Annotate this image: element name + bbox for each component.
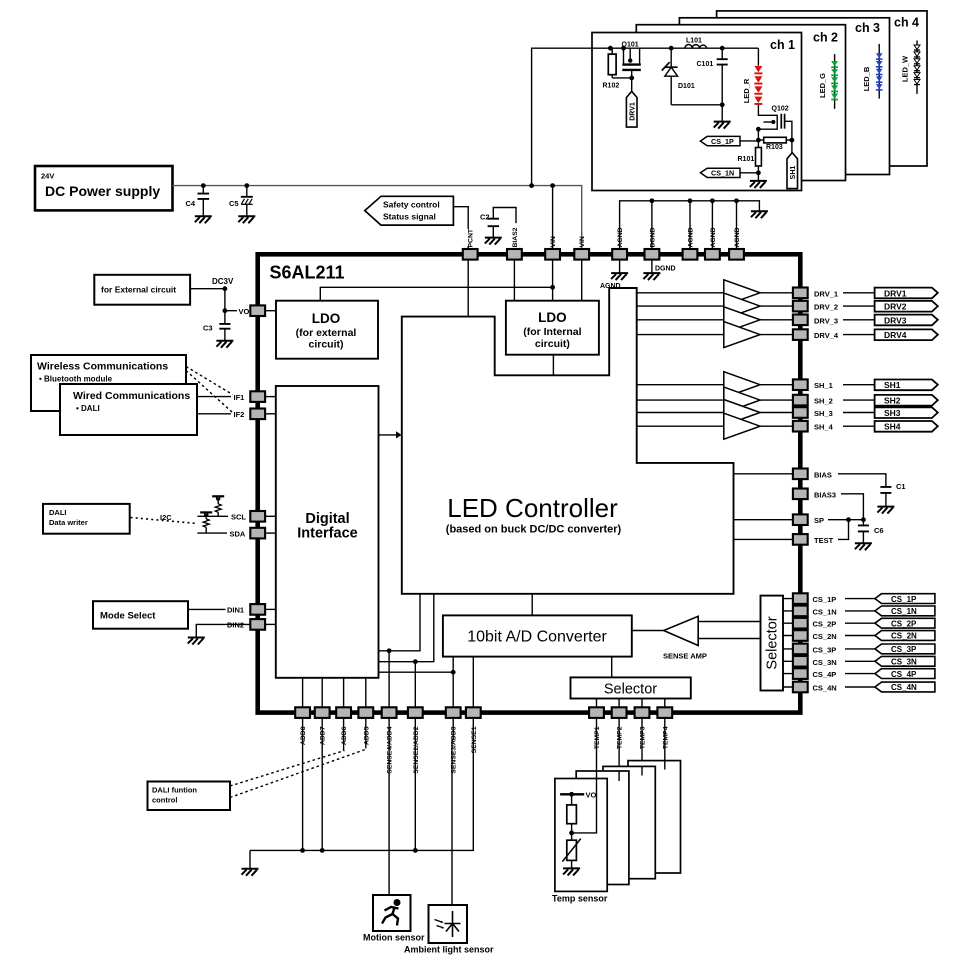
pin AGND 2 [683, 249, 698, 260]
ground C6 [855, 543, 872, 550]
svg-text:DRV4: DRV4 [884, 330, 907, 340]
box DALI funtion control [148, 782, 231, 811]
tag DRV2 [875, 301, 938, 312]
svg-text:TEMP3: TEMP3 [640, 726, 647, 749]
svg-text:DIN1: DIN1 [227, 606, 244, 615]
resistor R102 [608, 48, 616, 78]
svg-text:DC3V: DC3V [212, 277, 234, 286]
LED string LED_G [831, 61, 838, 100]
svg-text:DRV_1: DRV_1 [814, 289, 838, 298]
wire SENSE4 to motion sensor [388, 718, 390, 895]
tag SH1 output [875, 380, 938, 391]
pin SH_2 [793, 395, 808, 406]
junction rail to VIN1 [550, 183, 555, 188]
wire sense2 pin riser [414, 662, 416, 707]
junction ADD7 ground [320, 848, 325, 853]
wire CS_3N pin to tag [845, 660, 875, 662]
junction at C101 bottom [720, 102, 725, 107]
wire ADD6 stub [343, 718, 345, 751]
10bit A/D Converter box [443, 615, 632, 656]
svg-text:(for Internal: (for Internal [523, 326, 581, 338]
ground thermistor [563, 868, 580, 875]
box Ambient light sensor [429, 905, 468, 943]
wire DC3V to VO pin [225, 289, 237, 324]
wire DI to sense3 row [379, 671, 454, 673]
ground DGND pin [643, 260, 660, 281]
pin AGND 4 [729, 249, 744, 260]
pin BIAS3 [793, 489, 808, 500]
wire TEMP2 down [618, 718, 620, 781]
wire TEST to LED controller [734, 538, 794, 540]
junction C5 [244, 183, 249, 188]
wire SENSE2 down [414, 718, 416, 850]
wire SP to LED controller [734, 519, 794, 521]
pin SH_4 [793, 421, 808, 432]
svg-text:Selector: Selector [604, 682, 657, 698]
svg-text:circuit): circuit) [535, 338, 570, 350]
svg-text:DRV1: DRV1 [884, 288, 907, 298]
wire SCL [197, 515, 228, 517]
LED string LED_W [914, 45, 920, 85]
svg-text:VIN: VIN [550, 236, 557, 247]
pin TEMP4 [657, 707, 672, 718]
wire ADC to sense3 pin [452, 657, 454, 707]
svg-text:DIN2: DIN2 [227, 621, 244, 630]
junction at C101 top [720, 46, 725, 51]
tag SH3 [875, 407, 938, 418]
junction R103 right [790, 138, 795, 143]
wire DRV_1 to tag [843, 292, 875, 294]
svg-text:CS_4P: CS_4P [891, 670, 917, 679]
svg-text:Wired Communications: Wired Communications [73, 390, 190, 402]
wire PCNT into LED controller [467, 260, 469, 317]
svg-text:LDO: LDO [538, 310, 567, 325]
svg-text:IF1: IF1 [234, 393, 245, 402]
pin BIAS2 [507, 249, 522, 260]
tag SH4 [875, 421, 938, 432]
junction R101 top [756, 138, 761, 143]
pin DGND [645, 249, 660, 260]
junction sense2 [413, 659, 418, 664]
wire ground bus drop [249, 850, 251, 868]
svg-text:Status signal: Status signal [383, 212, 436, 222]
svg-text:CS_2P: CS_2P [891, 619, 917, 628]
svg-text:C6: C6 [874, 526, 884, 535]
svg-text:TEMP1: TEMP1 [594, 726, 601, 749]
svg-text:ch 4: ch 4 [894, 16, 919, 30]
svg-text:Temp sensor: Temp sensor [552, 894, 608, 904]
svg-text:Safety control: Safety control [383, 200, 440, 210]
transistor Q101 [622, 48, 641, 78]
pin CS_4N [793, 682, 808, 693]
junction SENSE2 ground [413, 848, 418, 853]
capacitor C5 (polarized) [241, 186, 253, 217]
tag DRV1 [875, 288, 938, 299]
svg-text:SH_4: SH_4 [814, 423, 834, 432]
ground ch1 LC [714, 122, 731, 129]
resistor temp divider [567, 794, 577, 840]
chip S6AL211 border [258, 254, 801, 712]
wire ADC to temp selector [611, 657, 613, 678]
wire TEST up to SP node [838, 520, 849, 540]
junction at Q101 source [621, 46, 626, 51]
svg-text:DGND: DGND [655, 266, 676, 273]
ground bottom bus [242, 869, 259, 876]
pullup resistor SDA [200, 512, 212, 533]
svg-text:L101: L101 [686, 38, 702, 45]
pin DRV_3 [793, 315, 808, 326]
thermistor [562, 839, 580, 869]
pin PCNT [463, 249, 478, 260]
svg-text:VIN: VIN [579, 236, 586, 247]
pin TEMP1 [589, 707, 604, 718]
wire CS_1N pin to tag [845, 610, 875, 612]
svg-text:D101: D101 [678, 83, 695, 90]
wires selector to CS pins [783, 599, 793, 687]
tag CS_1N external [875, 606, 935, 616]
pin CS_4P [793, 668, 808, 679]
svg-text:VO: VO [239, 307, 250, 316]
pin AGND 1 [612, 249, 627, 260]
svg-text:SH_3: SH_3 [814, 409, 833, 418]
ground AGND bus [751, 211, 768, 218]
svg-text:C5: C5 [229, 199, 239, 208]
svg-text:ADD5: ADD5 [363, 726, 370, 745]
temp sensor box 2 [576, 771, 629, 885]
wire TEMP4 down [664, 718, 666, 770]
tag DRV3 [875, 315, 938, 326]
inductor L101 [685, 45, 707, 49]
DC power supply box [35, 166, 173, 210]
svg-text:BIAS: BIAS [814, 470, 832, 479]
temp sensor box 3 [603, 766, 655, 878]
svg-text:Data writer: Data writer [49, 518, 88, 527]
svg-text:SH3: SH3 [884, 408, 901, 418]
svg-text:ch 1: ch 1 [770, 38, 795, 52]
pin SH_3 [793, 407, 808, 418]
wire ch4 LED string [916, 41, 918, 94]
wire ch2 LED string [834, 54, 836, 109]
pin ADD5 [358, 707, 373, 718]
svg-text:SENSE4/ADD4: SENSE4/ADD4 [387, 726, 394, 773]
LDO for internal circuit box [506, 301, 599, 355]
wire SCL pin to DI [265, 515, 276, 517]
junction R101 bottom [756, 170, 761, 175]
svg-text:LDO: LDO [312, 311, 341, 326]
wire gate to DRV1 tag [631, 78, 633, 91]
capacitor C1 [880, 487, 891, 507]
wire DRV_3 to tag [843, 319, 875, 321]
pin VIN 1 [545, 249, 560, 260]
junction temp divider [569, 831, 574, 836]
svg-text:SH_2: SH_2 [814, 397, 833, 406]
svg-text:CS_4N: CS_4N [891, 683, 917, 692]
wire DIN2 to ground [196, 624, 250, 637]
svg-text:24V: 24V [41, 172, 54, 181]
wire PCNT label stub [467, 246, 469, 249]
wire TEMP1 down [596, 718, 598, 771]
wire wired to IF1 [197, 396, 231, 398]
svg-text:LED_R: LED_R [742, 78, 751, 103]
pin CS_2N [793, 630, 808, 641]
wire TEMP2 stub inside box [618, 771, 620, 781]
svg-text:S6AL211: S6AL211 [270, 263, 345, 283]
pin SENSE2/ADD2 [408, 707, 423, 718]
wire D101 bottom to C101 bottom [671, 104, 722, 106]
junction Q101 gate node [629, 76, 634, 81]
wire mode select to DIN1 [188, 608, 226, 610]
wire ADD7 down [321, 718, 323, 850]
wire R102 to Q101 gate [612, 77, 632, 79]
junction Q102 source node [756, 127, 761, 132]
pin CS_2P [793, 618, 808, 629]
wire SDA [197, 532, 227, 534]
pin TEMP3 [635, 707, 650, 718]
svg-text:ch 2: ch 2 [813, 31, 838, 45]
wire CS_1N to R101 bottom [740, 172, 758, 174]
svg-text:CS_3P: CS_3P [813, 645, 837, 654]
pin VIN 2 [574, 249, 589, 260]
svg-text:10bit A/D Converter: 10bit A/D Converter [467, 629, 607, 646]
diode D101 (schottky) [662, 48, 678, 105]
pin CS_1P [793, 593, 808, 604]
tag CS_1P external [875, 594, 935, 604]
pin DRV_2 [793, 301, 808, 312]
pin SENSE3/ADD3 [446, 707, 461, 718]
svg-text:CS_1P: CS_1P [891, 595, 917, 604]
svg-text:(based on buck DC/DC converter: (based on buck DC/DC converter) [446, 524, 622, 536]
svg-text:circuit): circuit) [308, 339, 343, 351]
box Wireless Communications [31, 355, 186, 411]
svg-text:LED Controller: LED Controller [447, 493, 618, 523]
svg-text:CS_3N: CS_3N [813, 658, 837, 667]
svg-text:Wireless Communications: Wireless Communications [37, 361, 168, 373]
amp SENSE AMP [632, 616, 761, 645]
svg-text:SP: SP [814, 516, 824, 525]
wire TEMP4 stub inside box [664, 761, 666, 770]
junction sense4 [387, 648, 392, 653]
pin SDA [250, 528, 265, 539]
resistor R101 [756, 148, 762, 173]
svg-text:CS_3N: CS_3N [891, 658, 917, 667]
junction VO [223, 308, 228, 313]
wire CS_1P pin to tag [845, 598, 875, 600]
svg-text:ADD6: ADD6 [341, 726, 348, 745]
channel box ch1 [592, 33, 802, 191]
junction AGND riser 4 [734, 198, 739, 203]
buffer SH triangles [637, 372, 793, 440]
pin ADD7 [315, 707, 330, 718]
tag CS_1P [700, 136, 740, 146]
tag SH2 [875, 395, 938, 406]
svg-text:ch 3: ch 3 [855, 21, 880, 35]
svg-text:LED_G: LED_G [818, 73, 827, 98]
wire L101 out to LED_R [757, 48, 759, 66]
svg-text:DRV1: DRV1 [629, 102, 636, 121]
capacitor C6 [858, 520, 869, 544]
svg-text:CS_3P: CS_3P [891, 645, 917, 654]
tag CS_3N external [875, 656, 935, 666]
wire IF1 pin to DI [265, 396, 276, 398]
wire BIAS to C1 [838, 474, 886, 487]
junction SP/TEST [846, 517, 851, 522]
svg-text:Interface: Interface [297, 526, 357, 542]
buffer DRV triangles [637, 280, 793, 348]
wire ch3 LED string [878, 44, 880, 99]
svg-text:VO: VO [586, 791, 597, 800]
junction ADD8 ground [300, 848, 305, 853]
Digital Interface box [276, 386, 379, 678]
svg-text:LED_W: LED_W [901, 55, 910, 82]
capacitor C101 [717, 48, 728, 105]
svg-text:DALI funtion: DALI funtion [152, 786, 197, 795]
dotted I2C line [131, 518, 198, 524]
wire DIN1 pin to DI [265, 608, 276, 610]
pin AGND 3 [705, 249, 720, 260]
pin DIN1 [250, 604, 265, 615]
junction AGND riser 2 [688, 198, 693, 203]
junction AGND riser 3 [710, 198, 715, 203]
pin BIAS [793, 469, 808, 480]
ground AGND pin [611, 260, 628, 281]
wire LED ctrl to sense4 row [379, 594, 421, 651]
svg-text:AGND: AGND [617, 227, 624, 247]
LED Controller box [402, 288, 734, 594]
pullup resistor SCL [212, 496, 224, 516]
dashed wireless to IF1 [186, 367, 233, 395]
junction DGND riser [650, 198, 655, 203]
pin IF1 [250, 391, 265, 402]
tag CS_4P external [875, 669, 935, 679]
wire wired to IF2 [197, 413, 231, 415]
junction SP/C6 [861, 517, 866, 522]
svg-text:CS_1N: CS_1N [711, 169, 734, 178]
svg-text:DRV2: DRV2 [884, 302, 907, 312]
wire ADD5 stub [365, 718, 367, 748]
svg-text:SDA: SDA [230, 529, 246, 538]
wire SDA pin to DI [265, 532, 276, 534]
svg-text:CS_2P: CS_2P [813, 620, 837, 629]
tag DRV1 [626, 91, 637, 127]
wire LED controller to ADC [531, 594, 533, 616]
svg-text:I2C: I2C [160, 513, 172, 522]
wire SH_3 to tag [843, 412, 875, 414]
wire BIAS3 down to SP node [841, 494, 863, 520]
svg-text:DRV3: DRV3 [884, 315, 907, 325]
pin CS_3P [793, 644, 808, 655]
svg-text:CS_1N: CS_1N [891, 607, 917, 616]
svg-text:SENSE2/ADD2: SENSE2/ADD2 [413, 726, 420, 773]
svg-text:control: control [152, 796, 177, 805]
wire bottom ground bus [250, 718, 473, 850]
svg-text:Q101: Q101 [622, 42, 639, 49]
selector (CS) box [761, 596, 784, 691]
junction C4 [201, 183, 206, 188]
channel box ch2 [636, 25, 845, 181]
wire SH_2 to tag [843, 399, 875, 401]
svg-text:TEMP2: TEMP2 [617, 726, 624, 749]
wire LDO internal output [552, 355, 554, 376]
svg-text:SH4: SH4 [884, 422, 901, 432]
ground C1 [877, 507, 894, 514]
junction temp VO [569, 792, 574, 797]
wire BIAS to LED controller [734, 473, 794, 475]
wire sense4 pin riser [388, 651, 390, 707]
temp sensor box 1 [555, 779, 607, 892]
svg-text:TEMP4: TEMP4 [662, 726, 669, 749]
wire CS_3P pin to tag [845, 648, 875, 650]
tag CS_3P external [875, 644, 935, 654]
svg-text:CS_1P: CS_1P [711, 137, 734, 146]
wire arrow DI to LED controller [379, 431, 402, 438]
channel box ch3 [679, 18, 889, 175]
svg-text:DC Power supply: DC Power supply [45, 183, 160, 199]
svg-text:• Bluetooth module: • Bluetooth module [39, 375, 113, 384]
pin ADD8 [295, 707, 310, 718]
junction at R102 top [608, 46, 613, 51]
junction sense3 [451, 670, 456, 675]
selector (temp) box [571, 677, 691, 698]
svg-text:Motion sensor: Motion sensor [363, 933, 425, 943]
pin TEST [793, 534, 808, 545]
pin SENSE4/ADD4 [382, 707, 397, 718]
svg-text:R103: R103 [766, 144, 783, 151]
temp sensor box 4 [628, 761, 681, 873]
wires temp selector to TEMP pins [597, 699, 665, 708]
wire to ch1 ground [721, 105, 723, 122]
dashed DALI control line 1 [230, 751, 345, 787]
LED string LED_B [876, 53, 883, 90]
wire CS_1P to R101 top [740, 140, 758, 142]
svg-text:TEST: TEST [814, 536, 834, 545]
svg-text:CS_2N: CS_2N [813, 632, 837, 641]
svg-text:• DALI: • DALI [76, 404, 100, 413]
svg-text:AGND: AGND [734, 227, 741, 247]
dashed DALI control line 2 [230, 749, 367, 798]
dashed wireless to IF2 [186, 371, 233, 413]
wire SH_4 to tag [843, 425, 875, 427]
ground C4 [195, 216, 212, 223]
wire VIN1 to LDO internal [552, 260, 554, 301]
temp sensor VO rail [560, 793, 584, 795]
wire 24V top rail into ch1 [532, 48, 759, 185]
svg-text:C4: C4 [186, 199, 196, 208]
svg-text:AGND: AGND [688, 227, 695, 247]
pin IF2 [250, 409, 265, 420]
capacitor C2 [488, 208, 516, 238]
wire DRV_2 to tag [843, 305, 875, 307]
wire ext box to DC3V node [190, 288, 225, 290]
pin SP [793, 514, 808, 525]
wire SH_1 to tag [843, 384, 875, 386]
svg-text:CS_4N: CS_4N [813, 684, 837, 693]
svg-text:BIAS2: BIAS2 [512, 227, 519, 247]
ground C3 [216, 341, 233, 348]
ground DIN2 [188, 638, 205, 645]
svg-text:DRV_3: DRV_3 [814, 316, 838, 325]
tag SH1 [787, 153, 798, 189]
svg-text:for External circuit: for External circuit [101, 285, 176, 295]
svg-text:PCNT: PCNT [468, 228, 475, 247]
wire Q102 gate to SH1 [791, 140, 793, 153]
svg-text:Q102: Q102 [772, 106, 789, 113]
wire LDO ext to VIN node [320, 287, 552, 300]
resistor R103 [758, 137, 792, 143]
box motion sensor [373, 895, 411, 931]
tag CS_4N external [875, 682, 935, 692]
svg-text:Selector: Selector [765, 616, 781, 669]
pin TEMP2 [612, 707, 627, 718]
